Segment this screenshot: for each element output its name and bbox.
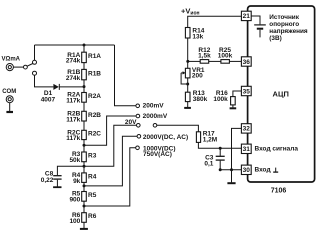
wire VR1 to R13 [187,78,189,92]
svg-text:R2B: R2B [88,112,101,119]
wire 20V tap [84,125,136,166]
svg-text:Источник: Источник [269,14,299,21]
wire 2000V tap [84,136,137,186]
svg-text:100k: 100k [213,96,228,103]
svg-text:900: 900 [69,197,80,204]
terminal VOmA [6,64,13,71]
svg-text:2000mV: 2000mV [143,113,168,120]
svg-text:117k: 117k [66,135,80,142]
junction dot common [230,168,233,171]
capacitor C3 [216,148,225,170]
IC U1 7106 box [248,6,315,182]
wire R25 to pin 36 [229,60,241,62]
node 1000V [136,146,140,150]
svg-text:4007: 4007 [41,96,56,103]
resistor R17 [196,132,200,143]
battery ref source symbol [251,16,266,37]
svg-text:Вход сигнала: Вход сигнала [255,146,299,153]
svg-text:117k: 117k [66,116,80,123]
svg-text:380k: 380k [193,96,208,103]
resistor R5 [82,192,87,202]
switch S1 [24,60,37,75]
junction dot C3 top [219,147,222,150]
svg-text:100k: 100k [218,52,233,59]
svg-text:200: 200 [192,72,203,79]
terminal COM [6,96,13,103]
ground under R13 [184,102,191,108]
resistor R4 [82,173,87,183]
wire pin 30 rail [220,169,241,171]
junction dot 2000mV tap [83,144,86,147]
resistor R3 [82,152,87,162]
svg-text:32: 32 [243,126,251,133]
svg-text:36: 36 [243,59,251,66]
svg-text:COM: COM [2,89,16,95]
diode D1 [53,84,59,90]
junction dot 1000V tap [83,205,86,208]
svg-text:9k: 9k [73,178,81,185]
svg-text:7106: 7106 [271,187,287,194]
svg-text:21: 21 [243,13,251,20]
resistor R2A [82,93,87,103]
svg-text:200mV: 200mV [143,103,165,110]
wire pin 32 to common [232,128,242,169]
resistor R14 [185,28,190,39]
node 20V [137,124,141,128]
wire switch top contact up to top rail [34,45,36,60]
wire terminal to switch pole [13,66,23,68]
wire node to R12 [188,60,200,62]
wire R17 to pin 31 [198,142,241,148]
svg-text:35: 35 [243,88,251,95]
svg-text:R5: R5 [88,192,97,199]
resistor R1B [82,69,87,79]
svg-text:31: 31 [243,146,251,153]
pin 30 [241,165,251,174]
svg-text:30: 30 [243,167,251,174]
wire 2000mV tap [84,116,136,145]
ground below common rail [231,170,233,183]
resistor R2C [82,130,87,139]
wire 1000V tap [84,148,136,206]
pin 36 [241,57,251,66]
wire top rail [35,44,115,46]
junction dot diode node [83,85,86,88]
svg-text:Вход: Вход [255,166,271,173]
resistor R2B [82,111,87,121]
svg-text:274k: 274k [66,58,81,65]
svg-text:1,5k: 1,5k [198,52,211,59]
resistor R1A [82,52,87,62]
junction dot 2000V tap [83,184,86,187]
svg-text:0,1: 0,1 [204,160,213,167]
svg-text:20V: 20V [125,119,137,126]
svg-text:1,2M: 1,2M [203,137,217,144]
wire divider column [83,45,85,222]
svg-text:R4: R4 [88,173,97,180]
svg-text:100: 100 [69,218,80,225]
svg-text:АЦП: АЦП [273,90,289,99]
resistor R25 [221,60,230,64]
resistor R12 [200,60,209,64]
wire switch bottom contact down [35,75,54,87]
node 200mV [136,104,140,108]
junction dot top of R1A [83,44,86,47]
svg-text:опорного: опорного [269,21,299,28]
wire +Vion to pin 21 [188,16,242,27]
svg-text:R6: R6 [88,213,97,220]
wire diode to divider column [59,86,84,88]
resistor R13 [185,92,190,101]
ground under R6 [80,222,88,229]
pin 21 [241,11,251,20]
svg-text:750V(AC): 750V(AC) [143,151,172,158]
svg-text:VΩmA: VΩmA [2,56,21,62]
junction dot 20V tap [83,165,86,168]
pin 32 [241,124,251,133]
svg-text:R1A: R1A [88,53,101,60]
ref source text [269,14,308,42]
node ADC pickup [153,124,157,128]
ground under COM [6,103,13,112]
svg-text:напряжения: напряжения [269,28,308,35]
svg-text:13k: 13k [192,33,203,40]
ground under R16 [230,105,237,108]
svg-text:2000V(DC, AC): 2000V(DC, AC) [143,134,188,141]
capacitor C8 [53,166,84,187]
svg-text:R2C: R2C [88,131,101,138]
wire pickup to R17 [157,125,199,132]
pin 30 label input ground [255,166,279,173]
svg-text:50k: 50k [69,157,80,164]
junction dot ref node [186,60,189,63]
node 2000mV [136,114,140,118]
pin 35 [241,86,251,95]
svg-text:R3: R3 [88,153,97,160]
potentiometer VR1 [181,68,190,84]
resistor R6 [82,213,87,223]
svg-text:(3В): (3В) [269,35,281,42]
wire pin 35 to R16 [233,91,242,97]
wire R12 to R25 [209,60,221,62]
wire R14 to node [187,38,189,68]
node 2000V [137,135,141,139]
pin 31 [241,144,251,153]
junction dot C3 bottom [219,168,222,171]
resistor R16 [231,97,236,105]
wire 200mV tap [115,45,136,106]
svg-text:0,22: 0,22 [41,177,54,184]
junction dot wiper node [186,83,189,86]
svg-text:R2A: R2A [88,93,101,100]
svg-text:117k: 117k [66,98,80,105]
svg-text:R1B: R1B [88,70,101,77]
svg-text:274k: 274k [66,75,81,82]
